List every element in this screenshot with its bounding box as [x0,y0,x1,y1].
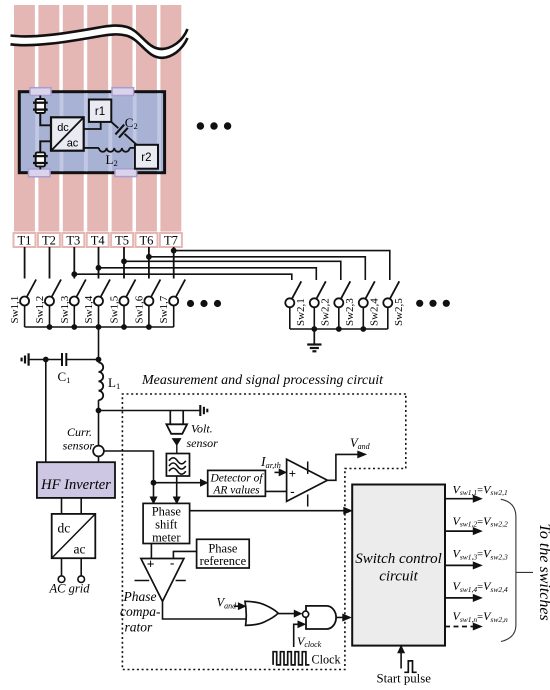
track stripes T1-T7 (charging pads) [14,5,181,232]
wires HF to dc/ac [61,498,63,514]
dashed box measurement circuit [122,394,405,670]
feed wire T3 to Sw2,1 [71,271,291,280]
OR gate [245,601,278,625]
ground bank2 [307,329,321,351]
wire phase reference to comparator [173,551,196,558]
svg-text:Start pulse: Start pulse [377,672,432,686]
coupling pad bottom-left [29,169,51,177]
filter block [166,454,189,477]
svg-text:Sw2,1: Sw2,1 [295,298,307,326]
wire dc/ac to r1 [84,122,101,129]
pickup transducer bottom [33,141,51,169]
terminal label T1 [14,233,36,248]
wire T6 down [148,247,150,279]
wire T7 down [173,247,175,279]
volt sensor [166,411,187,454]
receiver unit box (vehicle) [19,92,164,173]
svg-text:Switch control: Switch control [355,551,442,567]
bus bank2 [290,326,388,332]
wire T3 down [73,247,75,279]
svg-text:T1: T1 [18,234,32,248]
svg-text:+: + [147,557,155,572]
AC grid terminals [58,558,84,582]
dc/ac converter (grid) [52,514,96,558]
svg-text:ac: ac [67,137,79,149]
terminal label T6 [136,233,158,248]
clock waveform [273,652,309,665]
phase comparator op-amp [135,555,186,601]
coupling pad top-middle [112,88,134,96]
svg-text:Detector of: Detector of [209,473,264,485]
coupling pad top-left [30,88,51,96]
wire sensor to node A [104,451,154,483]
svg-text:sensor: sensor [63,439,95,453]
svg-text:sensor: sensor [187,436,219,450]
svg-text:Phase: Phase [123,589,157,604]
terminal label T3 [62,233,84,248]
brace to the switches [501,499,533,641]
switch control circuit box [352,485,445,646]
svg-text:r2: r2 [141,152,151,164]
svg-text:T3: T3 [66,234,80,248]
resistor r1 [89,100,111,122]
output Vsw1,n dashed [445,609,508,630]
svg-text:Sw1,1: Sw1,1 [9,296,21,324]
svg-text:shift: shift [155,518,178,532]
wire Iar,th to comparator [275,469,287,475]
svg-text:circuit: circuit [379,569,418,585]
ellipsis top row [197,122,232,129]
switch Sw1,3 [59,280,86,328]
svg-text:Curr.: Curr. [67,425,92,439]
resistor r2 [135,145,158,169]
wire comparator to OR gate [163,601,246,619]
detector of AR values [208,470,266,496]
wire node A to detector [154,480,208,486]
switch Sw1,1 [9,280,36,328]
ground volt sensor [200,405,207,416]
wire phase shift meter to switch control [190,508,352,514]
feed wire T4 to Sw2,2 [96,265,317,280]
svg-text:Volt.: Volt. [191,422,213,436]
switch Sw2,1 [285,281,307,329]
inductor L1 [99,360,104,411]
svg-text:reference: reference [200,554,247,568]
coupling pad bottom-middle [115,169,137,177]
wire comparator output Vand [327,451,365,480]
ellipsis bank1 [187,300,221,307]
switch Sw1,7 [158,280,185,328]
op-amp comparator U1 [287,459,328,506]
switch Sw1,4 [83,280,110,328]
switch Sw2,5 [383,281,405,329]
svg-text:T6: T6 [140,234,154,248]
wire filter to phase shift meter [174,476,180,503]
phase reference [197,539,250,568]
output Vsw1,1 [445,482,508,502]
pickup transducer top [33,96,51,126]
switch Sw1,5 [109,280,136,328]
svg-text:Sw1,2: Sw1,2 [34,296,46,324]
switch Sw2,4 [359,281,381,329]
ellipsis bank2 [416,300,450,307]
output Vsw1,3 [445,547,508,569]
inductor L2 [84,148,135,152]
terminal label T7 [160,233,182,248]
output Vsw1,4 [445,579,508,601]
switch Sw1,6 [133,280,160,328]
road wave [11,26,188,58]
svg-text:AC grid: AC grid [49,582,91,596]
switch Sw1,2 [34,280,61,328]
terminal label T2 [38,233,60,248]
wire T4 down [98,247,100,279]
node A [151,480,157,486]
node L1 top [96,357,102,363]
node C1/HF junction [43,357,49,363]
terminal label T5 [111,233,133,248]
svg-text:Sw1,6: Sw1,6 [133,295,145,323]
current sensor [93,411,104,463]
wire NAND to switch control [336,614,351,620]
wire node A to phase shift meter [150,483,156,504]
svg-text:Sw2,2: Sw2,2 [319,298,331,326]
wire T2 down [49,247,51,279]
svg-text:-: - [290,483,294,498]
svg-text:T5: T5 [115,234,129,248]
svg-text:ac: ac [74,542,86,557]
svg-text:HF Inverter: HF Inverter [40,477,111,493]
wire detector to comparator [265,490,286,492]
svg-text:dc: dc [57,122,69,134]
NAND gate with inverted input [303,606,337,629]
terminal label T4 [87,233,109,248]
svg-text:Measurement and signal process: Measurement and signal processing circui… [141,373,384,388]
wire T5 down [123,247,125,279]
svg-text:Sw2,3: Sw2,3 [344,298,356,326]
svg-text:dc: dc [58,521,71,536]
phase shift meter [143,503,190,544]
start pulse input [398,646,417,673]
svg-text:Sw2,4: Sw2,4 [368,298,380,326]
output Vsw1,2 [445,514,508,535]
capacitor C2 (diagonal) [111,122,136,145]
svg-text:-: - [170,555,174,570]
switch Sw2,2 [310,281,332,329]
svg-text:AR values: AR values [212,485,260,497]
svg-text:compa-: compa- [120,604,161,619]
svg-text:rator: rator [125,620,154,635]
svg-text:Sw1,4: Sw1,4 [83,295,95,323]
svg-text:Sw2,5: Sw2,5 [393,298,405,326]
svg-text:To the switches: To the switches [536,524,550,621]
svg-text:Phase: Phase [152,505,182,519]
svg-text:r1: r1 [95,106,105,118]
wire T1 down [24,247,26,279]
wire node to volt sensor [99,410,200,412]
svg-text:T4: T4 [91,234,106,248]
wire OR to NAND [278,610,301,616]
feed wire T5 to Sw2,3 [121,258,341,280]
bus bank1 [25,324,174,330]
switch Sw2,3 [334,281,356,329]
node L1 bottom [96,408,102,414]
svg-text:T7: T7 [164,234,178,248]
svg-text:meter: meter [152,531,181,545]
wire Vand to OR gate [234,603,245,609]
svg-text:Sw1,5: Sw1,5 [109,295,121,323]
wire phase shift meter to comparator [150,544,152,559]
svg-text:+: + [289,466,296,481]
ground left [22,353,29,365]
wire Vclock to NAND [294,621,305,647]
feed wire T6 to Sw2,4 [146,254,365,280]
svg-text:Clock: Clock [312,653,342,667]
HF Inverter [37,462,115,498]
capacitor C1 [29,353,99,366]
dc/ac converter (receiver) [51,117,84,150]
svg-text:T2: T2 [42,234,56,248]
svg-text:Sw1,3: Sw1,3 [59,295,71,323]
wire bus1 down to node [98,327,100,360]
feed wire T7 to Sw2,5 [171,248,390,280]
wire junction down to HF inverter [45,360,47,463]
svg-text:Sw1,7: Sw1,7 [158,295,170,323]
